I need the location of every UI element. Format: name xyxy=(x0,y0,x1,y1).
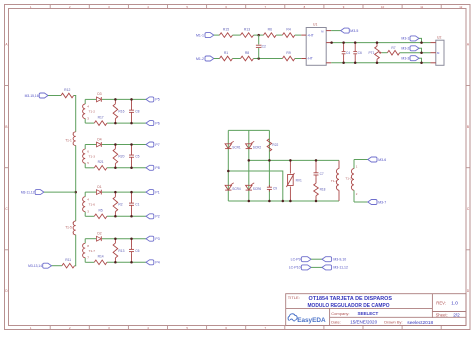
svg-text:Company:: Company: xyxy=(331,311,349,316)
transformer winding T1-2 xyxy=(83,104,96,120)
resistor R21 xyxy=(94,160,107,170)
svg-text:C4: C4 xyxy=(346,51,350,55)
port LC-P10 xyxy=(289,265,311,270)
svg-text:M3-9,10: M3-9,10 xyxy=(333,258,346,262)
port P2 xyxy=(146,214,160,219)
node junction xyxy=(114,191,117,194)
port M3-13,14 xyxy=(28,263,51,268)
wire xyxy=(233,58,241,60)
svg-text:EasyEDA: EasyEDA xyxy=(297,317,326,324)
transformer winding T1-1 xyxy=(65,131,75,146)
node junction xyxy=(342,41,345,44)
node junction xyxy=(376,41,379,44)
wire xyxy=(85,238,96,240)
svg-text:B: B xyxy=(467,125,469,129)
svg-text:M3-11,12: M3-11,12 xyxy=(21,190,35,194)
node junction xyxy=(354,41,357,44)
svg-text:R13: R13 xyxy=(244,28,250,32)
wire xyxy=(102,144,146,146)
pin U1 right top xyxy=(326,30,331,32)
node junction xyxy=(330,41,333,44)
svg-text:10: 10 xyxy=(381,5,385,9)
node junction xyxy=(74,191,77,194)
resistor R4 xyxy=(282,28,294,38)
title block labels xyxy=(288,295,448,325)
wire xyxy=(354,201,368,203)
transformer winding T1-4 xyxy=(331,160,339,201)
port M3-7 xyxy=(368,200,386,205)
wire R22/C9 rail xyxy=(268,130,270,201)
capacitor C8 xyxy=(129,99,140,123)
pin U2 2 xyxy=(431,52,436,54)
node junction xyxy=(114,98,117,101)
svg-text:MODULO REGULADOR DE CAMPO: MODULO REGULADOR DE CAMPO xyxy=(308,303,391,309)
svg-text:M3-15,16: M3-15,16 xyxy=(25,94,39,98)
svg-text:T1-3: T1-3 xyxy=(89,155,96,159)
port P8 xyxy=(146,165,160,170)
svg-text:Drawn By:: Drawn By: xyxy=(384,320,402,325)
port M3-3 xyxy=(401,56,421,63)
svg-text:T1-1: T1-1 xyxy=(65,139,72,143)
svg-text:12: 12 xyxy=(459,5,463,9)
capacitor C9 xyxy=(267,185,277,191)
svg-text:U1: U1 xyxy=(313,23,317,27)
wire xyxy=(85,215,94,217)
pin U1 right middle xyxy=(326,42,331,44)
svg-text:P8: P8 xyxy=(155,166,159,170)
node junction xyxy=(130,237,133,240)
svg-text:P5: P5 xyxy=(155,98,159,102)
resistor R16 xyxy=(113,99,125,123)
wire xyxy=(85,167,94,169)
pin -HT of U1 xyxy=(301,58,306,60)
svg-text:seelect2018: seelect2018 xyxy=(407,320,433,326)
svg-text:R1: R1 xyxy=(224,51,228,55)
wire lower loop xyxy=(228,171,282,201)
resistor R13 xyxy=(113,239,125,263)
svg-text:SCR4: SCR4 xyxy=(232,187,241,191)
svg-text:R16: R16 xyxy=(118,110,124,114)
svg-text:P7: P7 xyxy=(155,143,159,147)
port M3-11,12 xyxy=(21,190,44,195)
port M1-1 xyxy=(196,33,214,38)
svg-text:P6: P6 xyxy=(155,121,159,125)
wire xyxy=(48,95,61,97)
resistor R5 xyxy=(94,209,107,219)
wire xyxy=(214,34,220,36)
svg-text:15/ENE/2020: 15/ENE/2020 xyxy=(350,320,377,325)
svg-text:LC-P10: LC-P10 xyxy=(289,266,301,270)
node junction xyxy=(420,51,423,54)
port M3-9,10 xyxy=(322,257,346,262)
wire xyxy=(400,52,431,54)
wire xyxy=(354,159,368,161)
thyristor SCR6 xyxy=(246,183,262,191)
resistor R2 xyxy=(113,192,123,216)
svg-text:R17: R17 xyxy=(98,116,104,120)
wire xyxy=(214,58,220,60)
wire xyxy=(276,34,282,36)
wire block P5/P6 left rail xyxy=(84,99,86,104)
svg-text:M3-5: M3-5 xyxy=(350,29,358,33)
svg-text:R13: R13 xyxy=(118,249,124,253)
node junction xyxy=(114,237,117,240)
svg-text:D4: D4 xyxy=(97,137,101,141)
diode D2 xyxy=(97,232,102,242)
node junction xyxy=(420,41,423,44)
svg-text:P1: P1 xyxy=(155,190,159,194)
svg-text:D3: D3 xyxy=(97,92,101,96)
svg-text:M3-2: M3-2 xyxy=(401,47,409,51)
wire bridge bottom rail xyxy=(228,200,339,202)
node junction xyxy=(257,34,260,37)
transformer winding T1-7 xyxy=(83,243,96,259)
svg-text:TITLE:: TITLE: xyxy=(288,295,300,300)
thyristor SCR4 xyxy=(225,183,241,191)
pin U1 right bottom xyxy=(326,62,331,64)
svg-text:1.0: 1.0 xyxy=(451,301,458,306)
svg-text:SCR1: SCR1 xyxy=(232,146,241,150)
wire xyxy=(85,191,96,193)
node junction xyxy=(420,62,423,65)
port P4 xyxy=(146,260,160,265)
wire xyxy=(75,146,77,222)
capacitor C7 xyxy=(314,160,324,177)
svg-text:B: B xyxy=(5,125,7,129)
wire block P1/P2 left rail xyxy=(84,192,86,197)
wire xyxy=(85,261,94,263)
resistor R15 xyxy=(220,28,233,38)
wire xyxy=(52,265,62,267)
svg-text:R21: R21 xyxy=(98,160,104,164)
svg-text:PT1: PT1 xyxy=(368,51,374,55)
svg-text:M1-2: M1-2 xyxy=(196,57,204,61)
port M3-15,16 xyxy=(25,93,48,98)
wire SCR left rail xyxy=(227,130,229,201)
svg-text:R20: R20 xyxy=(118,154,124,158)
wire xyxy=(102,191,146,193)
wire xyxy=(258,35,260,58)
svg-text:LC-P9: LC-P9 xyxy=(291,258,301,262)
node junction xyxy=(289,159,292,162)
node junction xyxy=(227,170,230,173)
resistor R7 xyxy=(387,46,399,55)
transformer winding T1-6 xyxy=(83,197,96,214)
wire xyxy=(331,62,430,64)
node junction xyxy=(130,191,133,194)
wire block P3/P4 left rail xyxy=(84,239,86,244)
resistor R22 xyxy=(267,139,278,151)
svg-text:P4: P4 xyxy=(155,261,159,265)
pin +HT of U1 xyxy=(301,34,306,36)
svg-text:R18: R18 xyxy=(320,188,326,192)
svg-text:R11: R11 xyxy=(65,258,71,262)
svg-text:-HT: -HT xyxy=(307,57,313,61)
wire xyxy=(331,42,430,44)
capacitor C6 xyxy=(129,239,140,263)
capacitor C5 xyxy=(129,145,140,168)
svg-text:C8: C8 xyxy=(135,110,139,114)
wire snubber top rail xyxy=(249,159,339,161)
wire xyxy=(382,52,388,54)
wire xyxy=(311,266,322,268)
resistor R9 xyxy=(282,51,294,61)
thyristor SCR1 xyxy=(225,141,241,149)
diode D4 xyxy=(97,137,102,147)
svg-text:M3-1: M3-1 xyxy=(401,37,409,41)
pin U2 1 xyxy=(431,42,436,44)
resistor R1 xyxy=(220,51,233,61)
resistor R12 xyxy=(61,88,74,98)
svg-text:M3-6: M3-6 xyxy=(378,158,386,162)
wire xyxy=(295,58,302,60)
port M3-2 xyxy=(401,46,421,53)
svg-text:M3-7: M3-7 xyxy=(378,200,386,204)
port M3-5 xyxy=(341,28,359,33)
svg-text:R5: R5 xyxy=(98,209,102,213)
svg-text:R14: R14 xyxy=(98,255,104,259)
svg-text:SCR2: SCR2 xyxy=(253,146,262,150)
svg-text:R8: R8 xyxy=(245,51,249,55)
node junction xyxy=(114,143,117,146)
svg-text:REV:: REV: xyxy=(436,300,446,305)
svg-text:11: 11 xyxy=(420,5,423,9)
port LC-P9 xyxy=(291,257,311,262)
svg-text:C6: C6 xyxy=(135,249,139,253)
wire xyxy=(295,34,302,36)
svg-text:R6: R6 xyxy=(268,28,272,32)
EasyEDA logo xyxy=(288,314,326,324)
resistor R13 xyxy=(241,28,254,38)
wire xyxy=(311,258,322,260)
node junction xyxy=(248,159,251,162)
capacitor C2 xyxy=(256,45,266,49)
svg-text:R22: R22 xyxy=(272,143,278,147)
resistor R17 xyxy=(94,116,107,126)
wire xyxy=(254,34,264,36)
svg-text:C2: C2 xyxy=(262,45,266,49)
svg-text:M3-3: M3-3 xyxy=(401,57,409,61)
svg-text:C9: C9 xyxy=(273,187,277,191)
svg-text:2/2: 2/2 xyxy=(453,312,460,317)
port P6 xyxy=(146,121,160,126)
resistor R18 xyxy=(314,177,326,201)
wire xyxy=(254,58,283,60)
wire xyxy=(74,96,76,132)
svg-text:T1-5: T1-5 xyxy=(65,225,72,229)
node junction xyxy=(130,143,133,146)
wire xyxy=(75,235,76,266)
node junction xyxy=(130,98,133,101)
svg-text:U2: U2 xyxy=(437,35,441,39)
wire xyxy=(102,238,146,240)
svg-text:C6: C6 xyxy=(358,51,362,55)
node junction xyxy=(257,57,260,60)
node junction xyxy=(248,200,251,203)
svg-text:D2: D2 xyxy=(97,232,101,236)
wire xyxy=(44,191,76,193)
wire block P7/P8 left rail xyxy=(84,145,86,150)
title block frame xyxy=(286,294,466,326)
port M1-2 xyxy=(196,56,214,61)
wire xyxy=(85,98,96,100)
svg-text:Date:: Date: xyxy=(331,320,341,325)
svg-text:R4: R4 xyxy=(286,28,290,32)
transformer winding T1-2 secondary xyxy=(345,160,357,203)
svg-text:RV1: RV1 xyxy=(296,178,302,182)
port P1 xyxy=(146,190,160,195)
svg-text:R15: R15 xyxy=(223,28,229,32)
svg-text:P2: P2 xyxy=(155,215,159,219)
resistor R8 xyxy=(241,51,254,61)
node junction xyxy=(315,159,318,162)
wire xyxy=(102,98,146,100)
title text xyxy=(308,296,461,326)
svg-text:T1-7: T1-7 xyxy=(89,249,96,253)
svg-text:C1: C1 xyxy=(135,203,139,207)
wire xyxy=(331,30,341,32)
svg-text:SEELECT: SEELECT xyxy=(358,311,379,316)
svg-text:D1: D1 xyxy=(97,185,101,189)
svg-text:T1-2: T1-2 xyxy=(345,177,352,181)
wire xyxy=(85,122,94,124)
resistor R14 xyxy=(94,255,107,265)
diode D3 xyxy=(97,92,102,102)
wire xyxy=(85,144,96,146)
capacitor C1 xyxy=(129,192,140,216)
wire bridge top rail xyxy=(228,129,269,131)
thyristor SCR2 xyxy=(246,141,262,149)
svg-text:M3-13,14: M3-13,14 xyxy=(28,264,42,268)
svg-text:T1-6: T1-6 xyxy=(89,203,96,207)
svg-text:T1-4: T1-4 xyxy=(331,179,338,183)
svg-text:R9: R9 xyxy=(286,51,290,55)
svg-text:Sheet:: Sheet: xyxy=(436,312,448,317)
svg-text:C7: C7 xyxy=(320,172,324,176)
pin U2 3 xyxy=(431,62,436,64)
diode D1 xyxy=(97,185,102,195)
port P3 xyxy=(146,236,160,241)
svg-text:R12: R12 xyxy=(64,88,70,92)
port P7 xyxy=(146,142,160,147)
capacitor C4 xyxy=(342,43,351,63)
svg-text:OT1854 TARJETA DE DISPAROS: OT1854 TARJETA DE DISPAROS xyxy=(309,296,393,302)
potentiometer PT1 xyxy=(368,43,381,63)
svg-text:T1-2: T1-2 xyxy=(89,110,96,114)
svg-text:C5: C5 xyxy=(135,154,139,158)
op-amp U1 xyxy=(306,23,326,66)
svg-text:SCR6: SCR6 xyxy=(253,187,262,191)
port P5 xyxy=(146,97,160,102)
svg-text:M1-1: M1-1 xyxy=(196,33,204,37)
port M3-6 xyxy=(368,157,386,162)
wire SCR middle rail xyxy=(248,130,250,201)
svg-text:+HT: +HT xyxy=(307,33,313,37)
svg-text:M3-11,12: M3-11,12 xyxy=(333,266,348,270)
connector U2 xyxy=(436,35,444,65)
varistor RV1 xyxy=(286,160,302,201)
svg-text:P3: P3 xyxy=(155,237,159,241)
transformer winding T1-5 xyxy=(65,221,75,236)
svg-text:R2: R2 xyxy=(118,203,122,207)
capacitor C6 xyxy=(353,43,362,63)
wire xyxy=(233,34,241,36)
svg-text:M: M xyxy=(321,29,323,33)
resistor R11 xyxy=(62,258,75,268)
port M3-1 xyxy=(401,36,421,43)
svg-text:R7: R7 xyxy=(391,46,395,50)
resistor R20 xyxy=(113,145,125,168)
resistor R6 xyxy=(264,28,277,38)
port M3-11,12 link xyxy=(322,265,348,270)
transformer winding T1-3 xyxy=(83,149,96,165)
